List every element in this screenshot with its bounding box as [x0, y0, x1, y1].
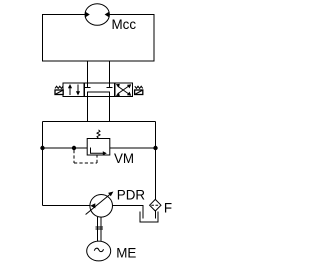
- valve left position: down arrow: [76, 85, 80, 96]
- wire: left vertical line: [42, 122, 44, 206]
- valve right position: crossed arrows: [116, 84, 132, 96]
- valve centre position: blocked port B stub: [107, 83, 113, 88]
- return spring, valve left end: [55, 86, 63, 88]
- node: pilot take-off junction: [72, 146, 76, 150]
- relief valve VM body: [87, 139, 110, 156]
- wire: motor loop rectangle (left, bottom, right sides + top segments): [43, 15, 155, 62]
- wire: port A line (valve to motor loop): [87, 61, 89, 83]
- valve centre position: blocked port A stub: [85, 83, 91, 88]
- solenoid, valve right end: [135, 90, 143, 95]
- svg-text:ME: ME: [116, 246, 136, 261]
- svg-text:PDR: PDR: [117, 188, 146, 203]
- pump PDR: [86, 192, 114, 218]
- solenoid, valve left end: [55, 90, 63, 95]
- drive shaft pump to motor: [96, 217, 104, 241]
- hydraulic motor Mcc: [85, 4, 109, 26]
- wire: valve port P down to rail: [87, 97, 89, 122]
- svg-text:VM: VM: [114, 151, 134, 166]
- pilot line (dashed): [74, 150, 97, 163]
- electric motor ME: [87, 241, 111, 261]
- filter F: [150, 199, 161, 211]
- tank: [140, 212, 158, 223]
- wire: bottom left horizontal to pump: [43, 205, 91, 207]
- wire: relief line left segment: [43, 147, 88, 149]
- wire: horizontal rail: [43, 121, 156, 123]
- return spring, valve right end: [135, 86, 143, 88]
- svg-text:Mcc: Mcc: [112, 17, 137, 32]
- wire: pump suction to tank: [113, 206, 144, 219]
- wire: valve port T down to rail: [109, 97, 111, 122]
- node: left junction: [40, 146, 44, 150]
- wire: port B line (valve to motor loop): [109, 61, 111, 83]
- node: right junction: [153, 146, 157, 150]
- relief valve VM spring: [97, 130, 100, 139]
- svg-text:F: F: [164, 201, 172, 216]
- relief valve VM flow arrow: [91, 148, 107, 156]
- wire: relief line right segment: [110, 147, 156, 149]
- valve centre position: P-T bypass U: [88, 92, 110, 97]
- directional valve body (3 position boxes): [63, 83, 133, 97]
- valve left position: up arrow: [68, 84, 72, 95]
- wire: filter outlet to tank: [154, 211, 156, 219]
- wire: right vertical line (rail to filter): [155, 122, 157, 200]
